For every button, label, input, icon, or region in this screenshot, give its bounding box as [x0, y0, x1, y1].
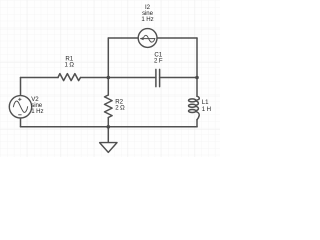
svg-text:1 Ω: 1 Ω: [65, 61, 75, 68]
svg-text:1 Hz: 1 Hz: [141, 16, 153, 23]
wire right riser: [196, 38, 198, 78]
wire ground stub: [107, 127, 109, 143]
ground: [100, 143, 117, 153]
wire node B to L1: [196, 78, 198, 97]
current source I2: [138, 29, 157, 48]
node A junction dot: [107, 76, 111, 80]
wire V2 bottom lead: [20, 118, 22, 127]
node B junction dot: [195, 76, 199, 80]
node G junction dot: [107, 125, 111, 129]
wire left riser: [107, 38, 109, 78]
wire V2 to R1: [21, 77, 59, 79]
wire R2 to bottom rail: [107, 118, 109, 127]
wire L1 to bottom rail: [196, 120, 198, 127]
wire top rail: [108, 37, 197, 39]
wire V2 top lead: [20, 78, 22, 96]
resistor R2: [105, 95, 113, 118]
voltage source V2: [9, 96, 31, 118]
svg-text:2 Ω: 2 Ω: [115, 105, 125, 112]
svg-text:1 Hz: 1 Hz: [31, 108, 43, 115]
capacitor C1: [156, 69, 160, 86]
resistor R1: [58, 74, 81, 81]
wire node A to C1: [108, 77, 156, 79]
wire node A to R2: [107, 78, 109, 96]
wire bottom rail: [21, 126, 198, 128]
wire R1 to node A: [81, 77, 109, 79]
svg-text:2 F: 2 F: [154, 57, 163, 64]
wire C1 to node B: [160, 77, 197, 79]
inductor L1: [189, 99, 196, 102]
svg-text:1 H: 1 H: [202, 106, 211, 113]
